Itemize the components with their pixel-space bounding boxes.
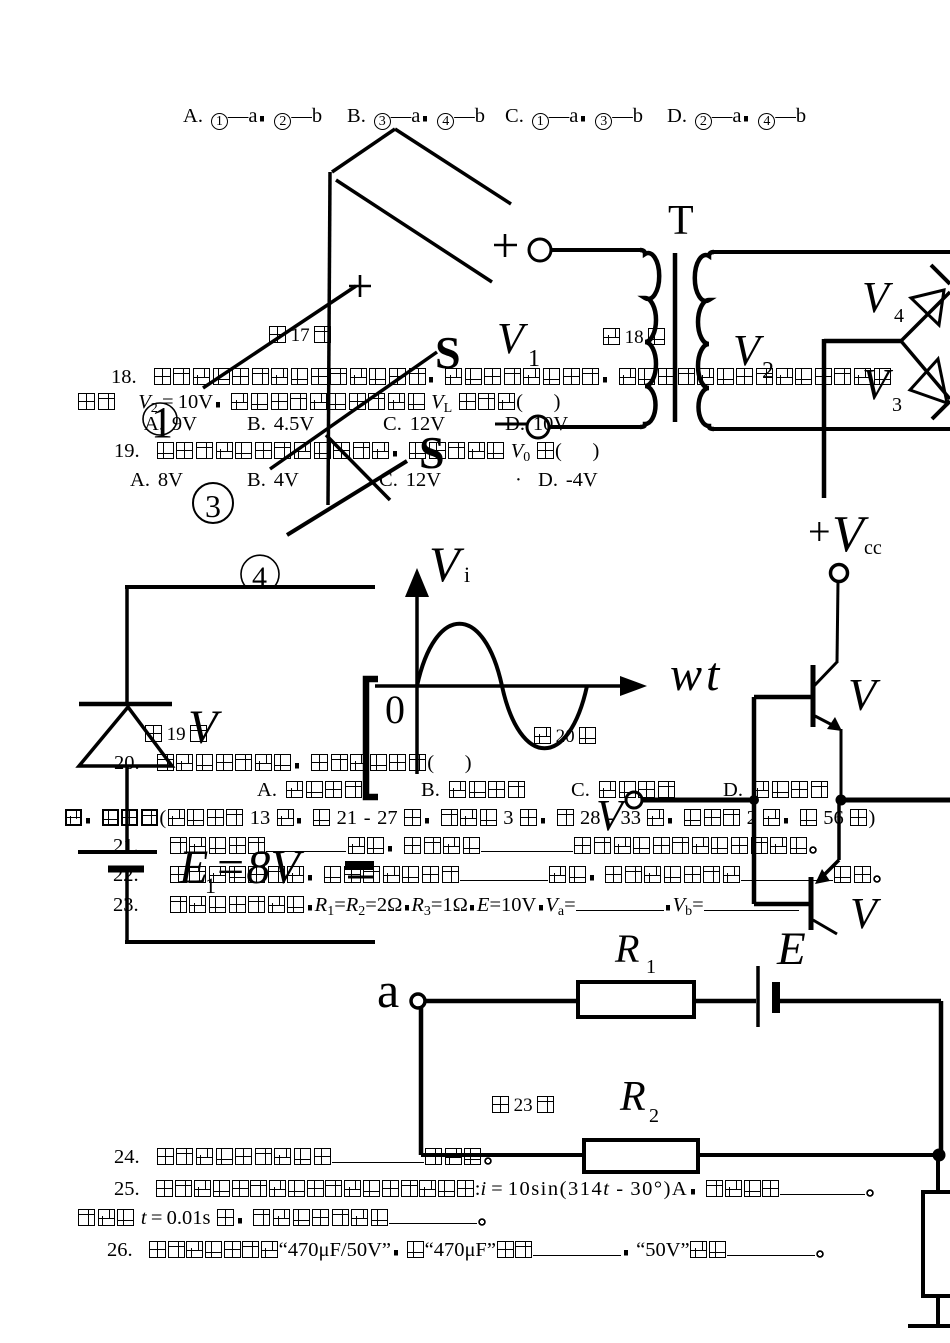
- diode fig19 cathode bar: [79, 702, 172, 707]
- diode V4 wire: [901, 292, 950, 341]
- svg-text:4: 4: [252, 561, 267, 594]
- svg-text:1: 1: [646, 956, 656, 978]
- wire bottom left: [421, 1153, 584, 1157]
- svg-text:R: R: [619, 1074, 646, 1120]
- wire Vcc down: [837, 581, 838, 663]
- battery E1 short plate: [108, 866, 144, 873]
- wire R1 to battery: [694, 999, 756, 1004]
- sine waveform: [417, 624, 587, 749]
- junction dot output: [836, 795, 847, 806]
- wire fig17 X diagonal a: [326, 435, 390, 500]
- battery stub small: [345, 861, 374, 877]
- wire a to R1: [425, 999, 578, 1004]
- wire primary top: [551, 248, 640, 252]
- terminal circle Vcc: [831, 565, 848, 582]
- diode V3 wire: [901, 341, 950, 399]
- axis wt horizontal: [375, 684, 622, 688]
- transformer core: [673, 253, 678, 422]
- wire fig17 apex-right diagonal: [395, 129, 511, 204]
- svg-text:V: V: [429, 536, 465, 592]
- svg-text:V: V: [862, 273, 894, 322]
- svg-text:+: +: [808, 509, 831, 554]
- input terminal circle: [626, 792, 642, 808]
- wire bridge output vertical: [822, 339, 827, 498]
- transistor V1 base bar: [811, 665, 816, 727]
- wire bottom right: [698, 1153, 941, 1157]
- wire right vertical: [939, 1001, 944, 1155]
- svg-text:3: 3: [205, 488, 221, 524]
- wire output right: [841, 798, 950, 803]
- plus sign fig18 primary: [494, 234, 517, 257]
- terminal 4 circled: [241, 555, 279, 587]
- resistor R2: [584, 1140, 698, 1172]
- svg-text:V: V: [850, 889, 882, 938]
- diode V4 triangle: [911, 290, 944, 325]
- svg-text:a: a: [377, 962, 399, 1018]
- terminal 3 circled: [193, 483, 233, 523]
- wire emitter down: [840, 729, 843, 797]
- transistor V2 base bar: [809, 877, 814, 930]
- junction dot base bus: [749, 795, 759, 805]
- transistor V1 base wire: [754, 695, 811, 700]
- wire base bus vertical: [752, 697, 757, 904]
- transformer secondary winding: [695, 252, 714, 429]
- wire fig17 second diagonal: [336, 180, 492, 282]
- transistor V1 emitter lead: [815, 716, 838, 728]
- svg-text:V: V: [848, 669, 881, 720]
- svg-text:E: E: [776, 923, 806, 975]
- svg-text:T: T: [668, 198, 694, 244]
- wire fig19 left middle: [125, 766, 129, 850]
- wire primary bottom stub left: [495, 423, 528, 426]
- svg-text:V: V: [497, 314, 529, 363]
- terminal circle a: [411, 994, 425, 1008]
- junction dot fig23: [933, 1149, 946, 1162]
- diode fig19 triangle: [79, 707, 172, 766]
- svg-text:R: R: [614, 926, 639, 971]
- wire fig19 bottom: [125, 940, 375, 944]
- wire fig19 left upper: [125, 587, 129, 704]
- wire secondary bottom: [714, 427, 950, 431]
- transformer primary winding: [640, 250, 659, 427]
- diode V3 cathode bar: [932, 401, 950, 419]
- terminal circle primary top: [529, 239, 551, 261]
- wire R3 bottom: [936, 1296, 940, 1326]
- svg-text:cc: cc: [864, 537, 882, 559]
- wire fig19 left lower: [125, 872, 129, 942]
- battery E short plate: [772, 982, 780, 1013]
- svg-text:4: 4: [894, 305, 904, 327]
- transistor V2 collector lead: [813, 920, 837, 934]
- wire fig17 apex-left: [332, 129, 395, 172]
- wire fig17 vertical: [328, 172, 330, 505]
- wire junction to R3: [936, 1155, 940, 1192]
- wire bridge output horizontal: [824, 339, 901, 344]
- axis Vi vertical: [415, 594, 419, 774]
- transistor V1 collector lead: [814, 662, 837, 686]
- diode V3 triangle: [910, 359, 947, 403]
- wire battery right: [780, 999, 941, 1004]
- svg-text:w: w: [670, 648, 702, 701]
- transistor V2 emitter wire: [837, 802, 841, 860]
- wire bottom stub: [908, 1324, 950, 1328]
- svg-text:0: 0: [385, 687, 405, 732]
- bracket glyph: [366, 679, 378, 797]
- svg-text:3: 3: [892, 394, 902, 416]
- plus sign fig17: [349, 275, 371, 297]
- battery E1 long plate: [78, 850, 157, 854]
- svg-text:i: i: [464, 562, 470, 587]
- wire fig17 diagonal to plus: [203, 286, 356, 388]
- wire primary bottom: [549, 425, 640, 429]
- resistor R3: [923, 1192, 950, 1296]
- terminal circle primary bottom: [527, 416, 549, 438]
- wire fig17 diagonal to S1: [270, 352, 437, 469]
- wire left vertical fig23: [419, 1006, 424, 1155]
- svg-text:t: t: [706, 648, 721, 701]
- wire secondary top: [714, 250, 950, 254]
- wire input: [642, 798, 752, 803]
- resistor R1: [578, 982, 694, 1017]
- wire base bus bottom: [754, 902, 810, 907]
- wire fig19 top: [125, 585, 375, 589]
- diode V4 cathode bar: [931, 265, 950, 284]
- terminal 1 circled: [143, 403, 177, 435]
- battery E long plate: [756, 966, 760, 1027]
- svg-text:2: 2: [649, 1105, 659, 1127]
- wire fig17 X diagonal b: [287, 461, 407, 535]
